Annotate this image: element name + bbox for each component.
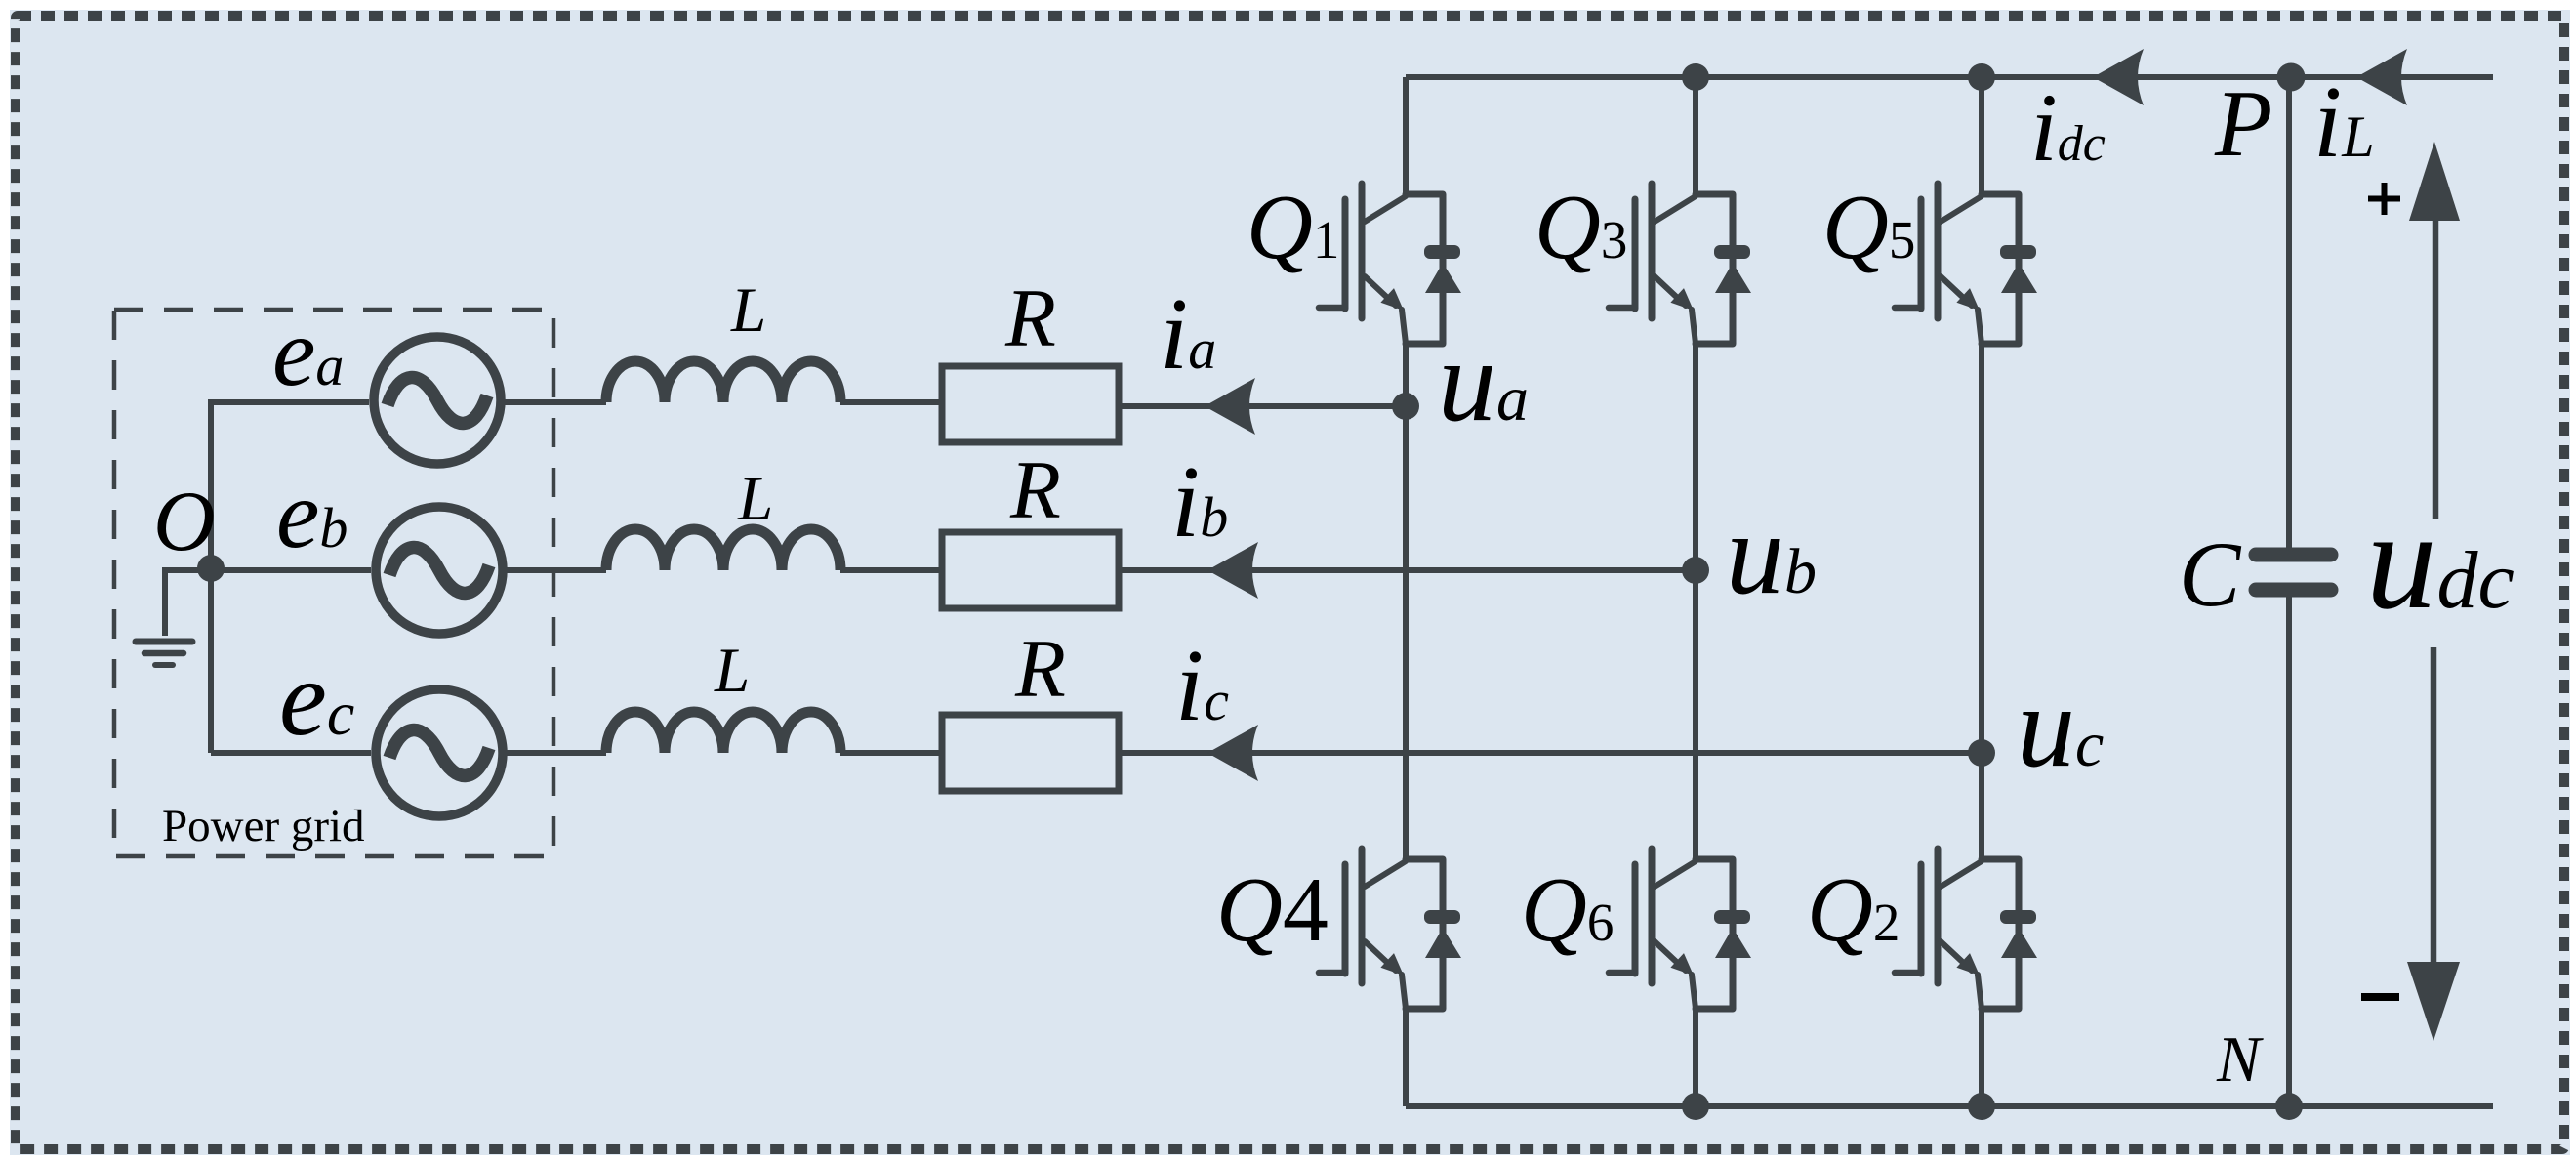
wire Q1 collector riser [1403, 77, 1409, 194]
svg-text:L: L [714, 636, 750, 706]
plus sign [2368, 183, 2400, 215]
svg-text:P: P [2214, 71, 2272, 176]
wire Lb to Rb [840, 567, 942, 573]
wire ea left [211, 402, 369, 753]
transistor Q5 [1895, 184, 2037, 344]
wire leg a bottom [1403, 1009, 1409, 1106]
wire Q3 collector riser [1693, 77, 1698, 194]
svg-text:O: O [153, 475, 216, 569]
wire Rc to node uc [1119, 750, 1982, 756]
svg-text:R: R [1004, 272, 1056, 364]
node uc [1968, 739, 1995, 767]
transistor Q6 [1609, 849, 1751, 1009]
inductor L phase b [606, 529, 840, 570]
bottom DC bus [1406, 1103, 2493, 1109]
udc down arrow [2407, 647, 2460, 1041]
junction top bus Q5 [1968, 63, 1995, 91]
wire Q5 collector riser [1979, 77, 1984, 194]
arrow ic [1207, 725, 1258, 781]
wire leg b mid [1693, 344, 1698, 859]
wire Rb to node ub [1119, 567, 1696, 573]
svg-text:Q4: Q4 [1216, 859, 1329, 961]
capacitor bottom lead [2286, 597, 2292, 1106]
node N [2275, 1093, 2303, 1120]
ground [136, 642, 192, 665]
minus sign [2361, 993, 2399, 1001]
capacitor top lead [2286, 77, 2292, 548]
node P [2277, 63, 2306, 92]
svg-text:C: C [2179, 522, 2242, 626]
source ec [376, 689, 503, 816]
wire leg b bottom [1693, 1009, 1698, 1106]
udc up arrow [2409, 142, 2460, 519]
junction bottom bus b [1682, 1093, 1709, 1120]
arrow iL [2356, 49, 2407, 105]
resistor R phase c [942, 715, 1119, 791]
resistor R phase b [942, 532, 1119, 608]
svg-text:Power grid: Power grid [162, 801, 365, 851]
wire ec to Lc [507, 750, 606, 756]
wire leg c mid [1979, 344, 1984, 859]
node ua [1392, 393, 1419, 420]
node ub [1682, 557, 1709, 584]
wire ea to La [505, 399, 606, 405]
svg-text:R: R [1009, 444, 1061, 536]
transistor Q2 [1895, 849, 2037, 1009]
svg-text:L: L [730, 275, 766, 346]
svg-text:L: L [737, 464, 773, 534]
junction top bus Q3 [1682, 63, 1709, 91]
resistor R phase a [942, 366, 1119, 442]
inductor L phase c [606, 712, 840, 753]
svg-text:R: R [1014, 623, 1066, 715]
wire leg a mid [1403, 344, 1409, 859]
arrow ia [1205, 378, 1255, 435]
source eb [376, 507, 503, 634]
transistor Q1 [1319, 184, 1461, 344]
arrow ib [1207, 542, 1258, 599]
wire eb left [211, 567, 371, 573]
transistor Q3 [1609, 184, 1751, 344]
node O [197, 555, 225, 582]
junction bottom bus c [1968, 1093, 1995, 1120]
wire eb to Lb [507, 567, 606, 573]
arrow idc [2093, 49, 2144, 105]
inductor L phase a [606, 361, 840, 402]
power grid dashed box [114, 310, 553, 856]
wire Lc to Rc [840, 750, 942, 756]
wire ec left [211, 750, 371, 756]
capacitor C [2256, 555, 2331, 590]
wire Ra to node ua [1119, 403, 1406, 409]
svg-text:N: N [2216, 1023, 2264, 1096]
top DC bus [1406, 74, 2493, 80]
wire leg c bottom [1979, 1009, 1984, 1106]
wire La to Ra [840, 399, 942, 405]
source ea [374, 337, 501, 464]
transistor Q4 [1319, 849, 1461, 1009]
wire to ground [165, 570, 211, 636]
